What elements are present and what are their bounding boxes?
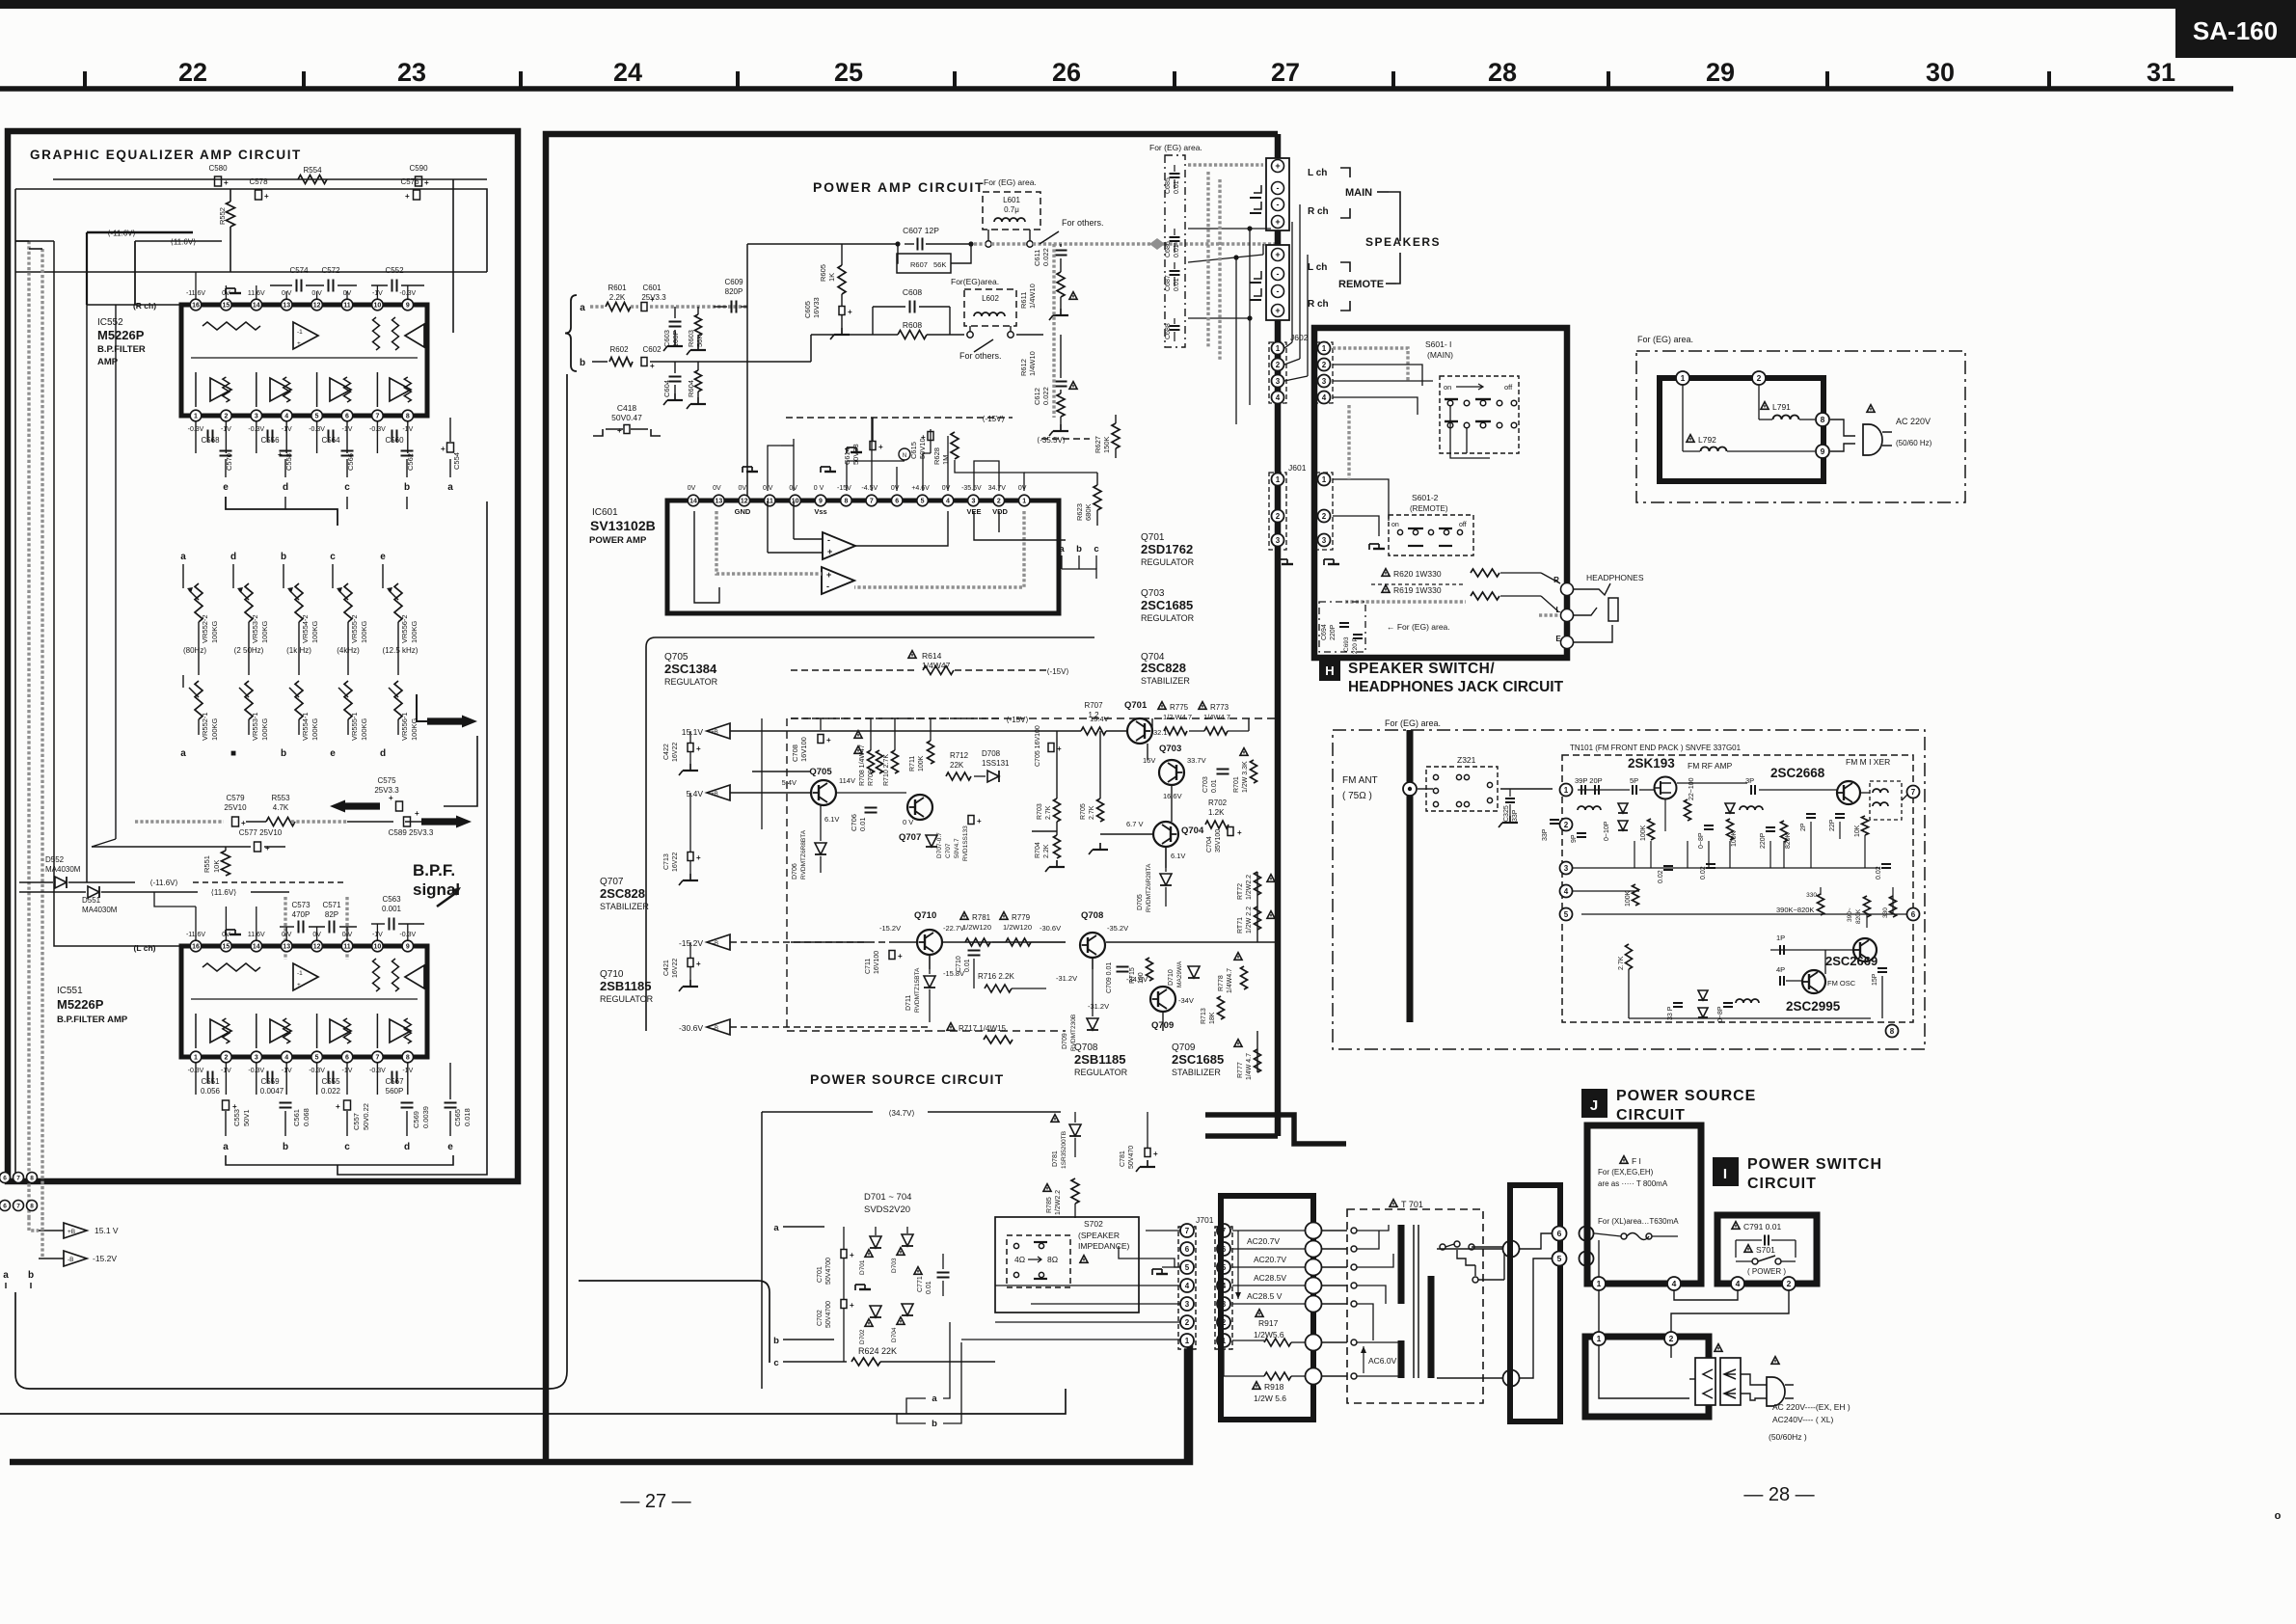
svg-text:FM M I XER: FM M I XER	[1846, 757, 1890, 767]
svg-text:C573: C573	[291, 901, 311, 909]
svg-text:a: a	[773, 1223, 779, 1233]
svg-text:8: 8	[406, 414, 410, 420]
svg-text:50V4.7: 50V4.7	[954, 838, 960, 858]
svg-text:R553: R553	[271, 794, 290, 802]
svg-text:R713: R713	[1201, 1008, 1207, 1024]
svg-text:C563: C563	[382, 895, 401, 904]
svg-text:100K: 100K	[1640, 825, 1647, 841]
wires into J701	[1146, 1230, 1180, 1232]
svg-text:REGULATOR: REGULATOR	[1074, 1068, 1128, 1077]
title I power switch circuit	[1713, 1157, 1739, 1186]
svg-text:1/2W2.2: 1/2W2.2	[1055, 1190, 1062, 1215]
svg-text:R703: R703	[1037, 803, 1043, 820]
svg-text:3: 3	[1185, 1300, 1190, 1309]
svg-text:D551: D551	[82, 896, 101, 905]
svg-text:R917: R917	[1258, 1318, 1279, 1328]
svg-text:820P: 820P	[725, 287, 743, 296]
svg-text:SPEAKERS: SPEAKERS	[1365, 235, 1441, 249]
svg-text:D704: D704	[891, 1327, 898, 1342]
hatched rails left	[27, 241, 30, 1217]
svg-text:C568: C568	[201, 436, 220, 445]
svg-text:+B: +B	[711, 730, 718, 736]
svg-text:2: 2	[997, 499, 1001, 505]
svg-text:2SC2995: 2SC2995	[1786, 999, 1841, 1014]
svg-text:29: 29	[1706, 58, 1735, 87]
svg-text:(L ch): (L ch)	[134, 943, 156, 953]
svg-text:R620 1W330: R620 1W330	[1393, 569, 1442, 579]
svg-text:16V33: 16V33	[812, 297, 821, 318]
svg-text:C565: C565	[453, 1109, 462, 1126]
svg-text:c: c	[1094, 544, 1098, 555]
svg-text:R775: R775	[1170, 703, 1189, 712]
svg-text:RVDMTZ6R8BTA: RVDMTZ6R8BTA	[800, 829, 807, 880]
svg-text:J602: J602	[1290, 333, 1309, 342]
svg-text:100K: 100K	[1625, 890, 1632, 907]
resistor R785	[1043, 1184, 1051, 1192]
svg-text:R711: R711	[909, 756, 916, 771]
svg-text:REGULATOR: REGULATOR	[1141, 557, 1195, 567]
svg-text:d: d	[380, 748, 386, 759]
svg-text:8Ω: 8Ω	[1047, 1255, 1058, 1264]
svg-text:1M: 1M	[941, 455, 950, 465]
svg-text:4: 4	[946, 499, 950, 505]
svg-text:b: b	[580, 358, 585, 368]
svg-text:15: 15	[223, 303, 230, 310]
svg-text:33P: 33P	[1542, 828, 1549, 841]
svg-text:+: +	[224, 178, 229, 187]
svg-text:1: 1	[1322, 475, 1327, 484]
svg-text:⟨-11.6V⟩: ⟨-11.6V⟩	[107, 230, 135, 238]
svg-text:R602: R602	[609, 345, 629, 354]
svg-text:0V: 0V	[713, 485, 721, 492]
svg-text:R716 2.2K: R716 2.2K	[978, 972, 1014, 981]
FM component stubs	[1634, 841, 1635, 868]
svg-text:For (EG) area.: For (EG) area.	[984, 177, 1037, 187]
svg-text:b: b	[283, 1142, 288, 1152]
secondary to rectifier junctions	[1503, 1241, 1520, 1258]
svg-text:⟨11.6V⟩: ⟨11.6V⟩	[171, 238, 197, 247]
svg-text:C612: C612	[1033, 388, 1041, 405]
svg-text:2SC1384: 2SC1384	[664, 662, 717, 676]
svg-text:C567: C567	[385, 1077, 404, 1086]
svg-text:0~10P: 0~10P	[1604, 821, 1610, 841]
svg-text:-30.6V: -30.6V	[679, 1023, 703, 1033]
svg-text:1/2W 3.3K: 1/2W 3.3K	[1242, 761, 1249, 793]
svg-text:R779: R779	[1012, 913, 1031, 922]
svg-text:M5226P: M5226P	[97, 328, 145, 342]
wire arrows loop	[417, 694, 427, 721]
svg-text:B.P.FILTER AMP: B.P.FILTER AMP	[57, 1015, 128, 1025]
svg-text:16V: 16V	[1143, 756, 1155, 765]
hatch wires down frame	[1347, 405, 1350, 479]
svg-text:-4.5V: -4.5V	[861, 485, 878, 492]
svg-text:50V0.47: 50V0.47	[611, 413, 642, 422]
svg-text:CIRCUIT: CIRCUIT	[1616, 1107, 1686, 1123]
svg-text:T 701: T 701	[1401, 1200, 1423, 1209]
svg-text:C706: C706	[850, 814, 858, 831]
svg-text:(50/60Hz ): (50/60Hz )	[1769, 1432, 1807, 1442]
svg-text:5: 5	[1185, 1263, 1190, 1272]
svg-text:STABILIZER: STABILIZER	[1141, 676, 1190, 686]
svg-text:2: 2	[1564, 821, 1569, 829]
svg-text:C564: C564	[321, 436, 340, 445]
fuse F1 labels	[1620, 1156, 1628, 1164]
svg-text:— 28 —: — 28 —	[1743, 1484, 1814, 1505]
svg-text:Q710: Q710	[914, 910, 936, 921]
svg-text:2SK193: 2SK193	[1628, 756, 1675, 771]
svg-text:b: b	[773, 1336, 779, 1346]
svg-text:VR554-1: VR554-1	[301, 712, 310, 741]
svg-text:2: 2	[1185, 1318, 1190, 1327]
svg-text:a: a	[223, 1142, 229, 1152]
svg-text:For(EG)area.: For(EG)area.	[951, 277, 999, 286]
resistor R778	[1234, 953, 1242, 961]
resistors R781 R779	[960, 912, 968, 920]
resistor R777	[1234, 1040, 1242, 1047]
svg-text:+: +	[1275, 306, 1280, 315]
svg-text:Q701: Q701	[1124, 700, 1148, 711]
-B -15.2V feed	[39, 1258, 64, 1259]
svg-text:(4kHz): (4kHz)	[337, 646, 360, 655]
svg-text:REGULATOR: REGULATOR	[1141, 613, 1195, 623]
svg-text:100KG: 100KG	[360, 717, 368, 741]
svg-text:C553: C553	[232, 1109, 241, 1126]
svg-text:Q703: Q703	[1159, 744, 1181, 754]
wires IC601 to regulators	[974, 511, 1066, 540]
svg-text:e: e	[330, 748, 336, 759]
svg-text:AC240V---- ( XL): AC240V---- ( XL)	[1772, 1415, 1833, 1424]
svg-text:0.0039: 0.0039	[421, 1106, 430, 1128]
svg-text:11: 11	[343, 303, 351, 310]
svg-text:100KG: 100KG	[260, 717, 269, 741]
svg-text:9P: 9P	[1571, 834, 1578, 843]
svg-text:1/2W 2.2: 1/2W 2.2	[1246, 907, 1253, 934]
svg-text:D709: D709	[1062, 1033, 1068, 1049]
svg-text:10: 10	[792, 499, 799, 505]
svg-text:100KG: 100KG	[260, 620, 269, 643]
svg-text:B.P.FILTER: B.P.FILTER	[97, 344, 146, 355]
svg-text:2.7K: 2.7K	[1618, 956, 1625, 970]
svg-text:+: +	[921, 433, 926, 442]
svg-text:⟨-15V⟩: ⟨-15V⟩	[1046, 667, 1068, 676]
svg-text:C685: C685	[1165, 177, 1172, 194]
svg-text:L792: L792	[1698, 435, 1716, 445]
SA-160 title block	[2175, 0, 2296, 58]
svg-text:10K: 10K	[1854, 825, 1861, 837]
svg-text:3: 3	[1322, 536, 1327, 545]
svg-text:REMOTE: REMOTE	[1338, 279, 1384, 290]
svg-text:16.6V: 16.6V	[1163, 792, 1182, 800]
svg-text:+: +	[265, 844, 270, 853]
capacitor C791	[1732, 1222, 1740, 1230]
svg-text:16V22: 16V22	[672, 853, 679, 872]
svg-text:9: 9	[819, 499, 823, 505]
svg-text:1/4W 4.7: 1/4W 4.7	[1246, 1053, 1253, 1080]
ruler line	[0, 86, 2233, 92]
svg-text:22: 22	[178, 58, 207, 87]
svg-text:6: 6	[1557, 1229, 1562, 1238]
svg-text:2.7K: 2.7K	[1089, 805, 1095, 820]
svg-text:1/2W5.6: 1/2W5.6	[1254, 1330, 1284, 1340]
svg-text:IC601: IC601	[592, 507, 618, 518]
svg-text:8: 8	[1821, 415, 1825, 424]
svg-text:4: 4	[284, 1055, 288, 1062]
svg-text:15.1 V: 15.1 V	[95, 1226, 119, 1235]
svg-text:C693: C693	[1343, 636, 1350, 652]
svg-text:STABILIZER: STABILIZER	[600, 902, 649, 911]
svg-text:J701: J701	[1196, 1215, 1214, 1225]
svg-text:0.7μ: 0.7μ	[1004, 205, 1019, 214]
heavy speaker wires to transformer	[1184, 1349, 1191, 1459]
svg-text:2P: 2P	[1800, 823, 1807, 831]
svg-text:16V22: 16V22	[672, 959, 679, 978]
transistor Q707	[907, 795, 932, 820]
svg-text:⟨-15V⟩: ⟨-15V⟩	[1006, 716, 1028, 724]
svg-text:15P: 15P	[1872, 973, 1878, 986]
svg-text:1/4W4.7: 1/4W4.7	[1203, 713, 1230, 721]
svg-text:0V: 0V	[1018, 485, 1027, 492]
svg-text:27: 27	[1271, 58, 1300, 87]
svg-text:30: 30	[1926, 58, 1955, 87]
svg-text:+: +	[826, 736, 831, 744]
svg-text:+: +	[696, 960, 701, 968]
svg-text:-30.6V: -30.6V	[1040, 924, 1061, 933]
svg-text:For (EX,EG,EH): For (EX,EG,EH)	[1598, 1168, 1654, 1177]
svg-text:R712: R712	[950, 751, 969, 760]
svg-text:POWER SOURCE: POWER SOURCE	[1616, 1088, 1756, 1104]
IC601 power amp block	[667, 501, 1059, 613]
svg-text:(50/60 Hz): (50/60 Hz)	[1896, 439, 1932, 447]
svg-text:STABILIZER: STABILIZER	[1172, 1068, 1221, 1077]
svg-text:R627: R627	[1094, 436, 1102, 453]
pins 6 5 pairs	[1553, 1227, 1567, 1241]
svg-text:16V100: 16V100	[874, 951, 880, 974]
svg-text:C615: C615	[909, 442, 918, 459]
svg-text:+: +	[826, 570, 831, 580]
svg-text:D781: D781	[1052, 1150, 1059, 1167]
svg-text:+: +	[415, 809, 419, 818]
svg-text:-: -	[1277, 183, 1280, 193]
svg-text:13: 13	[283, 303, 290, 310]
svg-text:4: 4	[1672, 1279, 1677, 1288]
svg-text:2.2K: 2.2K	[1043, 844, 1050, 858]
svg-text:AC 220V----(EX, EH ): AC 220V----(EX, EH )	[1772, 1402, 1850, 1412]
svg-text:For (XL)area…T630mA: For (XL)area…T630mA	[1598, 1217, 1679, 1226]
svg-text:7: 7	[16, 1203, 20, 1209]
svg-text:AC 220V: AC 220V	[1896, 417, 1931, 426]
svg-text:6: 6	[1185, 1245, 1190, 1254]
transformer T701	[1390, 1200, 1397, 1207]
gnd at IC552 pin15	[225, 288, 227, 294]
svg-text:a: a	[180, 748, 186, 759]
wires q705 area	[786, 771, 810, 772]
svg-text:b: b	[28, 1270, 34, 1281]
svg-text:4P: 4P	[1776, 965, 1785, 974]
svg-text:0.056: 0.056	[201, 1087, 221, 1096]
svg-text:HEADPHONES JACK CIRCUIT: HEADPHONES JACK CIRCUIT	[1348, 679, 1564, 695]
svg-text:RVDMTZ6R28TA: RVDMTZ6R28TA	[1146, 863, 1152, 912]
svg-text:R604: R604	[687, 380, 695, 397]
svg-text:C590: C590	[409, 164, 428, 173]
svg-text:(80Hz): (80Hz)	[183, 646, 206, 655]
svg-text:e: e	[380, 552, 386, 562]
svg-text:2: 2	[1276, 512, 1281, 521]
svg-text:820K: 820K	[1855, 908, 1862, 924]
svg-text:C605: C605	[803, 301, 812, 318]
svg-text:C574: C574	[289, 266, 309, 275]
svg-text:1/2 W4.7: 1/2 W4.7	[1163, 713, 1192, 721]
svg-text:C554: C554	[452, 452, 461, 470]
bottom connector box	[1585, 1337, 1709, 1417]
power amp frame	[546, 134, 1278, 1462]
svg-text:15.1V: 15.1V	[682, 727, 704, 737]
svg-text:(12.5 kHz): (12.5 kHz)	[383, 646, 419, 655]
stubs above IC551 pins	[195, 907, 197, 940]
fuse symbol	[1621, 1233, 1627, 1239]
svg-text:390K~820K: 390K~820K	[1776, 906, 1814, 914]
svg-text:-: -	[1277, 200, 1280, 209]
svg-text:b: b	[932, 1419, 937, 1429]
svg-text:D710: D710	[1168, 969, 1175, 986]
svg-text:C687: C687	[1165, 275, 1172, 291]
svg-text:5.4V: 5.4V	[687, 789, 704, 798]
svg-text:C711: C711	[865, 959, 872, 974]
svg-text:0.01: 0.01	[964, 959, 971, 972]
svg-text:-1: -1	[297, 329, 303, 336]
frame bottom heavy line	[10, 1345, 1190, 1462]
svg-text:IC551: IC551	[57, 986, 83, 996]
svg-text:25V3.3: 25V3.3	[374, 786, 399, 795]
svg-text:+: +	[1153, 1150, 1158, 1158]
svg-text:C559: C559	[260, 1077, 280, 1086]
svg-text:HEADPHONES: HEADPHONES	[1586, 573, 1644, 582]
2SC2669 osc buffer	[1853, 938, 1877, 961]
svg-text:R623: R623	[1075, 503, 1084, 521]
svg-text:100K: 100K	[918, 755, 925, 771]
svg-text:2.7K: 2.7K	[1045, 805, 1052, 820]
wires terminals to J602	[1291, 222, 1293, 342]
svg-text:+: +	[424, 178, 429, 187]
svg-text:8: 8	[1890, 1027, 1895, 1036]
svg-text:6.1V: 6.1V	[1171, 852, 1185, 860]
I box pins	[1731, 1277, 1744, 1290]
svg-text:C701: C701	[817, 1266, 824, 1283]
hatched verticals near IC551	[284, 897, 286, 960]
svg-text:+: +	[878, 443, 883, 451]
wire 11.6V feeds	[87, 231, 193, 234]
svg-text:4: 4	[1276, 393, 1281, 402]
svg-text:0.022: 0.022	[321, 1087, 341, 1096]
svg-text:2SC2668: 2SC2668	[1770, 766, 1825, 780]
svg-text:⟨-11.6V⟩: ⟨-11.6V⟩	[149, 879, 177, 887]
svg-text:VR555-2: VR555-2	[350, 614, 359, 643]
svg-text:220 P: 220 P	[1352, 637, 1359, 654]
svg-text:+: +	[441, 445, 446, 453]
long vertical bus wires left frame	[54, 241, 188, 946]
svg-text:25V10: 25V10	[224, 803, 247, 812]
svg-text:R612: R612	[1019, 359, 1028, 376]
svg-text:0V: 0V	[739, 485, 747, 492]
svg-text:b: b	[1076, 544, 1082, 555]
svg-text:R619 1W330: R619 1W330	[1393, 585, 1442, 595]
svg-text:R607: R607	[910, 260, 928, 269]
svg-text:(SPEAKER: (SPEAKER	[1078, 1231, 1120, 1240]
svg-text:0~8P: 0~8P	[1698, 832, 1705, 849]
svg-text:C708: C708	[791, 744, 799, 762]
svg-text:IMPEDANCE): IMPEDANCE)	[1078, 1241, 1130, 1251]
svg-text:-22.7V: -22.7V	[943, 924, 964, 933]
svg-text:50V470: 50V470	[1128, 1146, 1135, 1169]
svg-text:RT72: RT72	[1237, 883, 1244, 900]
svg-text:I: I	[1723, 1166, 1727, 1182]
svg-text:R707: R707	[1084, 701, 1103, 710]
svg-text:R701: R701	[1233, 776, 1240, 793]
svg-text:← For (EG) area.: ← For (EG) area.	[1387, 622, 1450, 632]
svg-text:For (EG) area.: For (EG) area.	[1385, 718, 1441, 728]
svg-text:16V22: 16V22	[672, 743, 679, 762]
svg-text:H: H	[1325, 663, 1334, 678]
VR bank 2 (tone pots)	[195, 583, 203, 622]
resistor R701	[1240, 748, 1248, 756]
svg-text:18K: 18K	[1209, 1012, 1216, 1024]
svg-text:34.7V: 34.7V	[988, 485, 1007, 492]
svg-text:10K: 10K	[212, 860, 221, 873]
svg-text:100KG: 100KG	[210, 717, 219, 741]
svg-text:-B: -B	[713, 941, 718, 947]
svg-text:1/2W2.2: 1/2W2.2	[1246, 875, 1253, 900]
svg-text:0.068: 0.068	[302, 1108, 311, 1126]
svg-text:AC6.0V: AC6.0V	[1368, 1356, 1397, 1366]
svg-text:S701: S701	[1756, 1245, 1775, 1255]
transistor Q704	[1153, 822, 1178, 847]
svg-text:R778: R778	[1218, 975, 1225, 991]
svg-text:4: 4	[1322, 393, 1327, 402]
svg-text:6.1V: 6.1V	[824, 815, 839, 824]
svg-text:25: 25	[834, 58, 863, 87]
svg-text:-: -	[1277, 286, 1280, 296]
FM OSC 2SC2995	[1802, 970, 1825, 993]
svg-text:-B: -B	[68, 1257, 74, 1263]
svg-text:L: L	[1556, 606, 1561, 614]
wires caps to terminals	[1188, 163, 1263, 166]
svg-text:R702: R702	[1208, 798, 1228, 807]
svg-text:1P: 1P	[1776, 934, 1785, 942]
FM bus wires	[1578, 789, 1630, 791]
svg-text:2SB1185: 2SB1185	[600, 979, 652, 993]
resistor R607 box	[897, 254, 951, 273]
letters a b c d e bottom	[225, 1111, 227, 1136]
switch S701	[1744, 1245, 1752, 1253]
svg-text:15: 15	[223, 944, 230, 951]
svg-text:220P: 220P	[1760, 832, 1767, 849]
svg-text:c: c	[344, 1142, 350, 1152]
svg-text:+: +	[297, 340, 301, 347]
svg-text:are as ····· T 800mA: are as ····· T 800mA	[1598, 1179, 1668, 1188]
stubs above IC552 pins	[195, 285, 197, 299]
svg-text:0.022: 0.022	[1041, 387, 1050, 405]
svg-text:+: +	[827, 547, 832, 556]
svg-text:9: 9	[1821, 447, 1825, 456]
svg-text:-31.2V: -31.2V	[1056, 974, 1077, 983]
IC601 internals	[823, 532, 855, 559]
svg-text:10: 10	[374, 944, 382, 951]
svg-text:C686: C686	[1165, 241, 1172, 257]
svg-text:0.02: 0.02	[1658, 870, 1664, 883]
svg-text:100KG: 100KG	[311, 620, 319, 643]
svg-text:-15.2V: -15.2V	[879, 924, 901, 933]
svg-text:1: 1	[1022, 499, 1026, 505]
resistor R614	[908, 651, 916, 659]
